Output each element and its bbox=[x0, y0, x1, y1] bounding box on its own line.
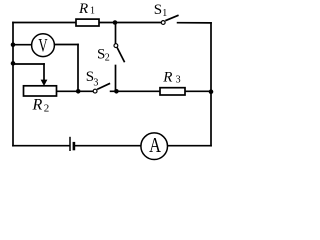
svg-text:R: R bbox=[78, 1, 88, 17]
svg-text:3: 3 bbox=[176, 74, 181, 85]
svg-text:R: R bbox=[32, 97, 43, 114]
svg-text:R: R bbox=[162, 69, 172, 85]
svg-text:3: 3 bbox=[93, 78, 98, 89]
svg-text:S: S bbox=[154, 2, 162, 18]
svg-text:2: 2 bbox=[44, 103, 50, 115]
svg-text:1: 1 bbox=[90, 5, 95, 16]
svg-text:1: 1 bbox=[162, 8, 167, 19]
svg-text:A: A bbox=[149, 133, 161, 157]
svg-text:2: 2 bbox=[105, 52, 110, 63]
svg-text:V: V bbox=[38, 36, 47, 57]
